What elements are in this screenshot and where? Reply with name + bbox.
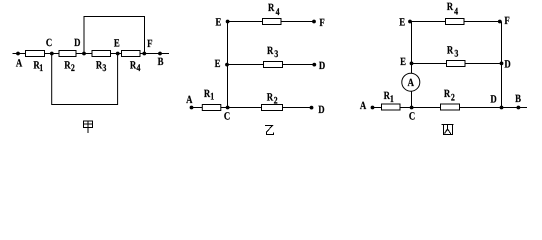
svg-text:3: 3 [274,49,278,60]
svg-text:4: 4 [137,63,141,74]
label R2 [444,88,455,103]
svg-text:R: R [447,44,454,56]
node E top junction dot [226,20,230,24]
node E middle junction dot [225,63,229,67]
node F junction dot [498,20,502,24]
svg-text:A: A [360,100,366,112]
svg-text:D: D [319,60,325,72]
svg-text:D: D [74,37,80,49]
node E middle junction dot [410,62,414,66]
svg-text:C: C [46,37,52,49]
wire: left vertical ammeter to C [411,91,413,107]
svg-text:F: F [504,15,510,27]
svg-text:2: 2 [274,95,278,106]
svg-text:E: E [114,38,120,50]
resistor R2 [441,104,460,110]
node A junction dot [16,52,20,56]
svg-text:1: 1 [210,92,214,103]
svg-text:4: 4 [276,7,280,18]
resistor R1 [202,105,221,111]
svg-text:3: 3 [454,49,458,60]
label R1 [204,88,214,103]
wire: top branch E-F [228,21,315,23]
svg-text:B: B [158,56,164,68]
svg-text:D: D [318,104,324,116]
node B junction dot [158,52,162,56]
svg-text:C: C [409,110,415,122]
svg-text:A: A [186,94,192,106]
svg-text:R: R [447,1,454,13]
label R4 [130,59,141,74]
node F junction dot [312,20,316,24]
node D bottom junction dot [310,106,314,110]
caption glyph bing [442,125,454,135]
wire: bottom loop C to E [52,54,118,105]
label R3 [267,45,278,60]
node D bottom junction dot [500,106,504,110]
wire: bottom branch A-B [371,107,527,109]
svg-text:2: 2 [71,63,75,74]
label R3 [447,44,458,59]
wire: top branch E-F [412,21,502,23]
node D junction dot [82,52,86,56]
label R2 [267,91,278,106]
node C junction dot [50,52,54,56]
resistor R1 [382,104,401,110]
svg-text:A: A [408,77,415,89]
node F junction dot [142,52,146,56]
wire: left vertical E-C [227,22,229,108]
svg-text:R: R [267,45,274,57]
resistor R1 [26,51,45,57]
svg-text:D: D [504,59,510,71]
svg-text:1: 1 [390,94,394,105]
caption glyph jia [83,121,92,133]
svg-text:E: E [400,56,406,68]
wire: top loop D to F [84,17,145,54]
svg-text:E: E [215,16,221,28]
svg-text:F: F [147,38,153,50]
svg-text:R: R [444,88,451,100]
node E junction dot [116,52,120,56]
resistor R4 [263,19,282,25]
label R4 [447,1,458,17]
wire: middle branch E-D [412,63,502,65]
svg-text:D: D [490,93,496,105]
label R1 [384,90,394,105]
svg-text:B: B [515,93,521,105]
node A junction dot [371,106,375,110]
wire: right vertical F-D [501,22,503,108]
svg-text:A: A [16,57,22,69]
wire: main horizontal line A-B [13,53,170,55]
node A junction dot [190,106,194,110]
label R3 [96,59,107,74]
node B junction dot [517,106,521,110]
resistor R2 [262,105,283,111]
node E top junction dot [408,20,412,24]
node D middle junction dot [500,62,504,66]
wire: middle branch E-D [228,64,315,66]
ammeter A [402,73,420,91]
svg-text:1: 1 [39,63,43,74]
wire: bottom branch A-D [192,107,312,109]
node C junction dot [226,106,230,110]
caption glyph yi [265,126,274,135]
resistor R4 [122,51,141,57]
resistor R3 [447,61,466,67]
resistor R3 [264,62,283,68]
resistor R3 [92,51,111,57]
wire: left vertical E to ammeter [411,22,413,74]
resistor R2 [59,51,76,57]
svg-text:F: F [319,17,325,29]
label R2 [64,59,75,74]
resistor R4 [446,19,465,25]
svg-text:3: 3 [102,63,106,74]
svg-text:E: E [399,16,405,28]
svg-text:2: 2 [451,92,455,103]
svg-text:C: C [224,110,230,122]
node C junction dot [410,106,414,110]
label R1 [33,59,43,74]
svg-text:4: 4 [454,6,458,17]
node D middle junction dot [312,63,316,67]
label R4 [268,2,280,18]
svg-text:E: E [215,58,221,70]
svg-text:R: R [268,2,275,14]
